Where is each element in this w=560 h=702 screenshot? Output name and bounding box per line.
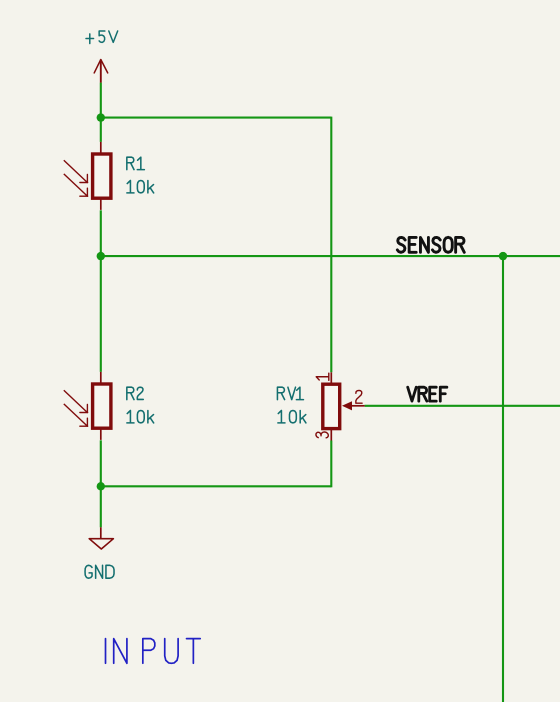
wire SENSOR node to R2 top [100,256,102,372]
pin number 2 (RV1) [356,390,362,403]
wire RV1 pin 3 to bottom rail [330,441,332,488]
wire +5V pin to top junction [100,83,102,118]
wire top horizontal rail [101,117,331,119]
resistor R1 (photoresistor) [64,142,111,210]
label RV1 [277,387,303,399]
label +5V [86,31,118,43]
text INPUT [106,639,201,664]
resistor R2 (photoresistor) [64,372,111,440]
wire top junction to R1 top [100,118,102,142]
potentiometer RV1 [323,372,365,440]
junction at +5V rail [97,113,105,121]
junction SENSOR right [499,252,507,260]
value 10k (R1) [127,181,154,193]
wire R2 bottom to bottom junction [100,440,102,486]
wire bottom junction to GND [100,486,102,527]
ground [89,527,113,549]
junction bottom rail [97,482,105,490]
wire vertical down to RV1 pin 1 [330,117,332,373]
pin number 1 (RV1) [316,373,329,380]
value 10k (RV1) [278,411,306,423]
label R2 [127,387,143,399]
label R1 [127,157,145,169]
power symbol +5V [94,60,108,83]
net label VREF [408,387,447,401]
pin number 3 (RV1) [316,432,328,438]
wire VREF horizontal [365,405,560,407]
wire bottom horizontal rail [101,485,331,487]
wire right vertical drop [502,256,504,702]
wire SENSOR horizontal [101,255,560,257]
label GND [85,565,114,578]
net label SENSOR [397,237,464,252]
junction SENSOR left [97,252,105,260]
wire R1 bottom to SENSOR node [100,210,102,256]
value 10k (R2) [127,411,154,423]
